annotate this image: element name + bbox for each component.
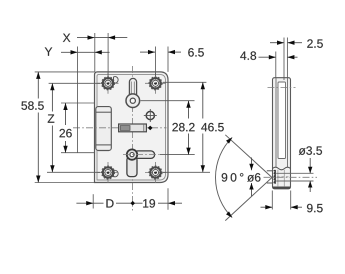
screw boss bottom-right (145, 162, 166, 183)
lever leg (127, 157, 137, 177)
side view body (264, 78, 318, 189)
screw boss bottom-left (98, 162, 119, 183)
screw boss top-left (98, 73, 119, 94)
left spring housing rect (96, 107, 112, 151)
dimension o3.5 (299, 146, 322, 192)
bottom dark band (273, 187, 291, 189)
dimension o6 (247, 158, 260, 197)
break line (273, 167, 291, 170)
dimension 6.5 (140, 47, 204, 77)
dimension Z (47, 83, 100, 172)
bolt bar (119, 124, 147, 132)
90 degree fan (216, 135, 272, 221)
small cross hole (146, 111, 154, 119)
dimension 58.5 (21, 72, 94, 183)
dimension 4.8 (240, 51, 297, 77)
dimension 46.5 (163, 82, 224, 172)
inner verticals in foot (277, 170, 279, 187)
ear hook right of top-left boss (114, 77, 119, 83)
lever arm (134, 151, 155, 159)
pin lines (o3.5) (276, 172, 313, 174)
vertical centerline of plate (132, 66, 134, 211)
ear hook right of bottom-left boss (114, 170, 119, 176)
dimension D and 19 (76, 188, 182, 210)
serrated shaft cap (273, 170, 276, 184)
dimension Y (45, 47, 110, 153)
dimension 28.2 (141, 101, 195, 155)
lock plate outer outline (front view) (95, 72, 169, 183)
dimension 9.5 (261, 191, 323, 213)
node diamond at bolt tip (148, 126, 153, 131)
horizontal centerline of bolt (73, 127, 167, 129)
shaft centerline (264, 176, 318, 178)
dimension 26 (60, 103, 95, 153)
pivot centerline (123, 154, 160, 156)
dimension 2.5 (270, 38, 323, 81)
dimension X (63, 33, 127, 77)
screw boss top-right (145, 73, 166, 94)
shaft silhouette (267, 170, 273, 172)
keyhole slot surround (129, 78, 136, 98)
lock plate inner outline (97, 74, 166, 180)
keyhole circle (126, 94, 140, 108)
lever pivot boss (127, 149, 137, 159)
